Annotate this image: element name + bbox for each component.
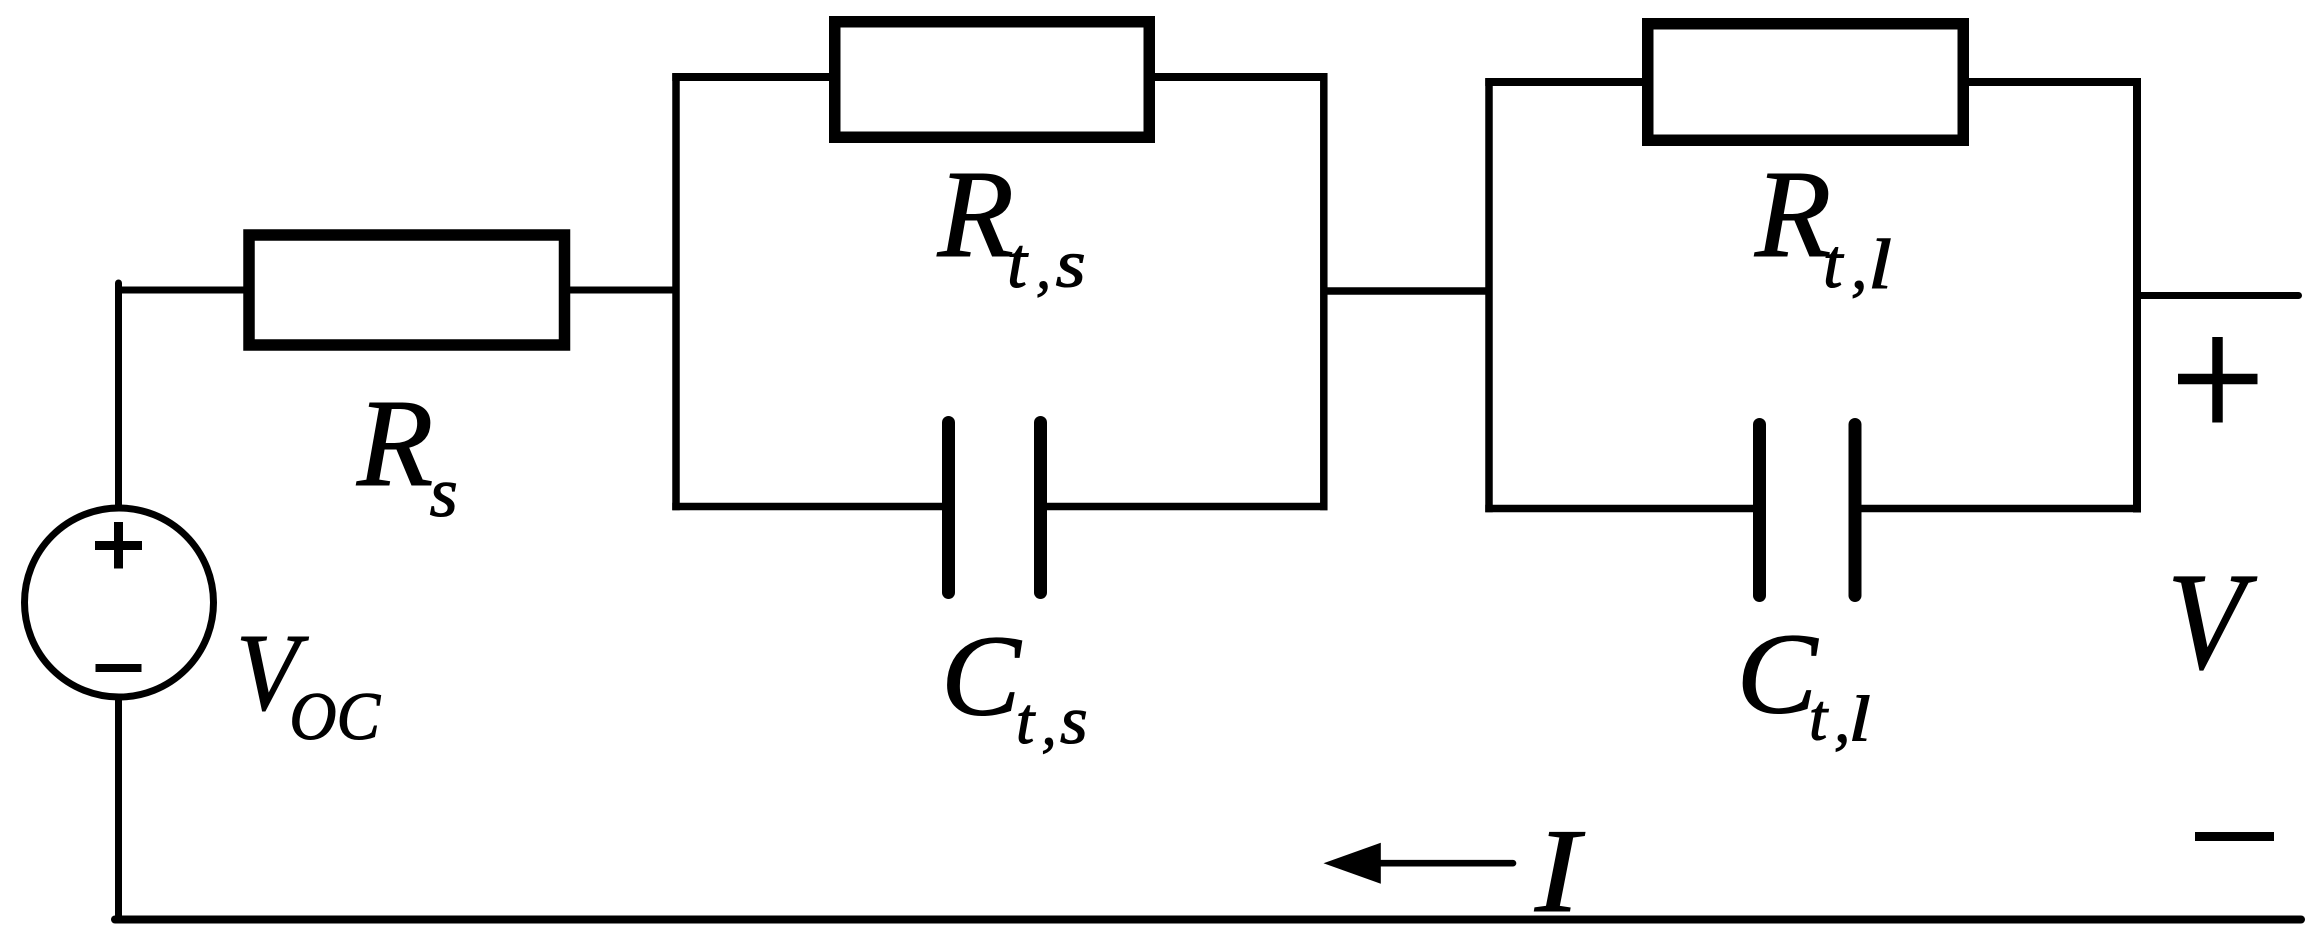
label V_OC (236, 612, 381, 754)
capacitor C_t,s left plate (942, 423, 955, 593)
resistor R_t,s (835, 22, 1150, 138)
svg-text:R: R (937, 146, 1014, 284)
svg-text:l: l (1849, 684, 1871, 756)
svg-text:s: s (1060, 682, 1088, 758)
wire output positive terminal (2137, 292, 2299, 299)
wire R_s to block1 (564, 287, 676, 294)
label R_t,s (937, 146, 1086, 303)
wire block2 top left segment (1485, 78, 1649, 86)
svg-text:R: R (1754, 146, 1831, 284)
svg-text:t: t (1823, 226, 1844, 303)
voltage source V_OC circle (25, 508, 214, 697)
label C_t,s (941, 613, 1088, 759)
output minus sign (2195, 832, 2274, 841)
wire left vertical branch (115, 283, 122, 920)
wire block1 to block2 (1323, 287, 1489, 295)
svg-text:,: , (1042, 691, 1057, 757)
label R_s (356, 375, 458, 532)
capacitor C_t,l left plate (1753, 425, 1766, 596)
svg-text:OC: OC (289, 679, 381, 754)
wire block2 bottom left segment (1485, 505, 1755, 513)
wire block2 top right segment (1961, 78, 2141, 86)
wire block1 left vertical (672, 73, 680, 510)
label C_t,l (1737, 611, 1871, 757)
output plus sign (2178, 337, 2258, 423)
svg-text:t: t (1016, 686, 1036, 758)
voltage source plus sign (95, 522, 142, 569)
wire block1 top right segment (1148, 73, 1328, 81)
svg-text:,: , (1036, 235, 1051, 301)
svg-text:I: I (1534, 804, 1585, 937)
svg-text:l: l (1868, 225, 1892, 304)
label I (1534, 804, 1585, 937)
svg-text:V: V (2167, 545, 2258, 699)
resistor R_s (249, 235, 565, 345)
svg-text:t: t (1809, 683, 1829, 755)
svg-text:s: s (430, 455, 458, 532)
wire block1 top left segment (672, 73, 836, 81)
wire block1 right vertical (1320, 73, 1328, 510)
voltage source minus sign (96, 664, 142, 672)
svg-text:R: R (356, 375, 433, 513)
wire block2 right vertical (2133, 78, 2141, 513)
svg-text:t: t (1007, 223, 1029, 303)
capacitor C_t,l right plate (1849, 425, 1862, 596)
label R_t,l (1754, 146, 1892, 304)
wire block1 bottom left segment (672, 503, 945, 511)
current arrow I head (1324, 843, 1381, 884)
svg-text:,: , (1851, 231, 1867, 303)
label V output (2167, 545, 2258, 699)
current arrow I shaft (1381, 860, 1513, 867)
svg-text:C: C (1737, 611, 1819, 738)
wire block2 bottom right segment (1860, 505, 2141, 513)
capacitor C_t,s right plate (1034, 423, 1047, 593)
svg-text:s: s (1056, 225, 1086, 301)
wire block2 left vertical (1485, 78, 1493, 512)
wire bottom return (115, 916, 2301, 924)
wire top-left horizontal (115, 287, 248, 294)
resistor R_t,l (1648, 24, 1964, 141)
svg-text:C: C (941, 613, 1022, 740)
wire block1 bottom right segment (1044, 503, 1328, 511)
